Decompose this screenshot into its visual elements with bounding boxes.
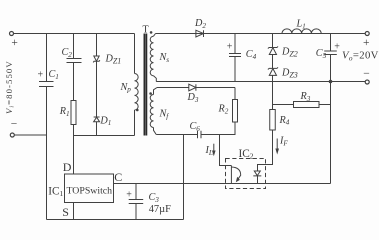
arrow IF xyxy=(276,139,278,149)
capacitor C5 xyxy=(324,34,337,82)
node junction dot output return xyxy=(329,80,333,84)
capacitor C1 xyxy=(39,34,54,220)
inductor L1 xyxy=(282,29,321,34)
wire R3 right xyxy=(319,104,331,106)
svg-text:S: S xyxy=(62,205,69,219)
capacitor C3 xyxy=(129,184,144,220)
capacitor C2 xyxy=(67,34,82,101)
wire IL branch xyxy=(220,135,232,166)
svg-text:Vo=20V: Vo=20V xyxy=(342,50,379,63)
svg-text:−: − xyxy=(363,68,370,80)
IC1 TOPSwitch box xyxy=(65,174,114,203)
wire R3 left xyxy=(273,104,294,106)
wire zener branch lower xyxy=(272,82,274,110)
node Np polarity dot xyxy=(136,109,139,112)
wire top rail secondary xyxy=(156,33,366,35)
optocoupler LED xyxy=(253,171,261,176)
transformer feedback winding Nf xyxy=(154,88,158,95)
arrow IL xyxy=(213,144,215,151)
node output minus terminal xyxy=(365,80,369,84)
svg-text:TOPSwitch: TOPSwitch xyxy=(67,186,113,197)
resistor R1 xyxy=(71,101,76,125)
svg-text:T: T xyxy=(143,24,149,35)
svg-text:−: − xyxy=(11,118,17,130)
svg-text:+: + xyxy=(38,70,44,81)
wire bottom ground rail xyxy=(47,219,184,221)
capacitor C6 xyxy=(198,131,202,138)
node input plus terminal xyxy=(10,32,14,36)
node input minus terminal xyxy=(10,133,14,137)
wire top rail primary xyxy=(14,33,135,35)
zener diode DZ2 xyxy=(268,46,278,48)
wire C pin line xyxy=(114,183,331,185)
wire S pin xyxy=(73,203,75,220)
diode D1 xyxy=(94,117,100,122)
svg-text:+: + xyxy=(334,41,340,52)
svg-text:D: D xyxy=(63,160,72,174)
zener diode DZ1 xyxy=(96,34,98,57)
wire minus terminal to C1 xyxy=(14,134,46,136)
svg-text:47µF: 47µF xyxy=(149,204,171,215)
transformer T core xyxy=(144,34,146,136)
wire D pin xyxy=(73,136,75,175)
optocoupler IC2 dashed box xyxy=(226,159,266,189)
svg-text:+: + xyxy=(227,41,233,52)
node Nf polarity dot xyxy=(149,92,152,95)
wire drain node xyxy=(74,135,135,137)
transformer primary winding Np xyxy=(134,34,136,74)
wire R2 top xyxy=(234,88,236,100)
node Ns polarity dot xyxy=(150,31,153,34)
svg-text:+: + xyxy=(363,37,370,49)
svg-text:+: + xyxy=(11,37,18,49)
wire R4 to optocoupler LED xyxy=(258,130,273,171)
resistor R3 xyxy=(294,102,320,108)
zener diode DZ3 xyxy=(268,67,278,69)
optocoupler phototransistor xyxy=(230,166,232,184)
capacitor C4 xyxy=(229,34,241,82)
resistor R4 xyxy=(270,110,276,131)
node output plus terminal xyxy=(365,32,369,36)
wire Nf return xyxy=(156,134,183,136)
svg-text:C: C xyxy=(114,170,122,184)
wire output column xyxy=(330,82,332,184)
wire Nf return column xyxy=(183,135,185,220)
diode D2 xyxy=(196,30,204,37)
wire secondary return rail xyxy=(156,81,365,83)
wire R2 bottom to C6 xyxy=(201,122,235,135)
transformer secondary winding Ns xyxy=(154,34,156,37)
diode D3 xyxy=(157,87,189,89)
resistor R2 xyxy=(233,100,238,123)
svg-text:+: + xyxy=(126,190,132,201)
